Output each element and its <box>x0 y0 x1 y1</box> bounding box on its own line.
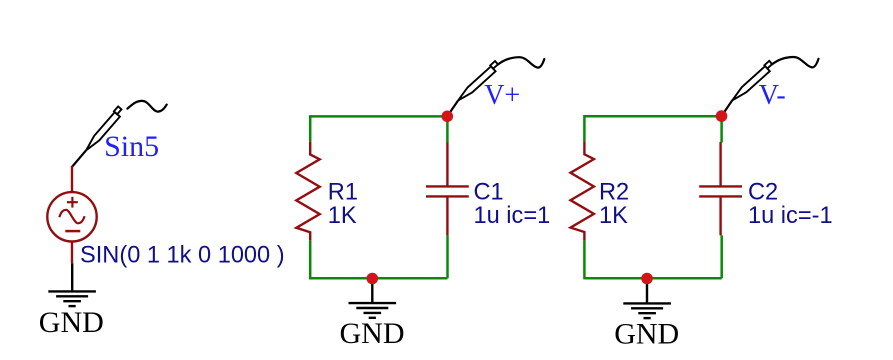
svg-text:1u ic=-1: 1u ic=-1 <box>748 203 833 229</box>
probe P1 (Sin5) <box>72 101 167 167</box>
wire: bottom of tank 3 <box>584 277 721 280</box>
svg-text:C1: C1 <box>474 180 504 206</box>
node V- junction dot <box>716 110 728 122</box>
probe P3 (V-) <box>722 57 819 116</box>
wire: right lower green (tank 3) <box>720 235 723 278</box>
wire: left upper green (tank 3) <box>583 115 586 141</box>
ground G1 <box>48 291 96 306</box>
svg-text:V+: V+ <box>484 80 520 111</box>
wire: left lower green <box>309 241 312 280</box>
svg-text:1K: 1K <box>599 203 628 229</box>
sine squiggle <box>59 210 84 224</box>
node V+ junction dot <box>442 111 454 123</box>
svg-text:GND: GND <box>340 317 405 350</box>
voltage source VS1 <box>47 192 96 241</box>
svg-text:V-: V- <box>759 80 786 111</box>
svg-text:C2: C2 <box>748 180 778 206</box>
wire: left lower green (tank 3) <box>583 241 586 280</box>
junction dot: tank 2 ground node <box>367 273 379 285</box>
wire: to ground (black part) <box>71 263 73 291</box>
svg-text:R1: R1 <box>328 180 358 206</box>
wire: node to ground 2 <box>371 278 373 303</box>
wire: top of tank 2 <box>310 115 447 118</box>
capacitor C2 <box>699 142 742 236</box>
wire: right upper green <box>446 115 449 142</box>
svg-text:1K: 1K <box>328 203 357 229</box>
wire: node to ground 3 <box>646 278 648 303</box>
minus sign <box>65 230 80 233</box>
svg-text:1u ic=1: 1u ic=1 <box>474 203 551 229</box>
wire: bottom of tank 2 <box>310 277 447 280</box>
svg-text:R2: R2 <box>599 180 629 206</box>
ground G3 <box>623 303 671 318</box>
plus sign <box>67 197 78 208</box>
ground G2 <box>349 303 397 318</box>
svg-text:Sin5: Sin5 <box>104 130 159 163</box>
resistor R1 <box>296 142 319 241</box>
junction dot: tank 3 ground node <box>641 273 653 285</box>
wire: left upper green <box>309 115 312 141</box>
capacitor C1 <box>426 142 469 236</box>
svg-text:SIN(0 1 1k 0 1000 ): SIN(0 1 1k 0 1000 ) <box>80 243 285 269</box>
svg-text:GND: GND <box>614 317 679 350</box>
wire: top of tank 3 <box>584 115 721 118</box>
svg-text:GND: GND <box>39 306 104 339</box>
wire: probe corner to source top <box>71 166 73 193</box>
wire: right upper green (tank 3) <box>720 115 723 143</box>
wire: right lower green <box>446 235 449 278</box>
wire: source bottom (red part) <box>71 242 73 264</box>
probe P2 (V+) <box>447 57 544 116</box>
resistor R2 <box>571 141 594 240</box>
